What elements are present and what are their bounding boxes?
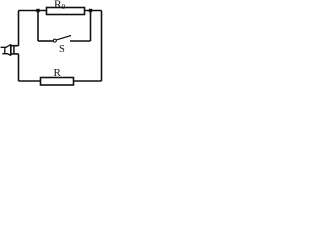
background xyxy=(0,0,109,90)
wire: switch right lead xyxy=(70,40,91,42)
speaker diaphragm line xyxy=(10,44,12,55)
wire: top-right segment from R0 box to corner xyxy=(85,10,102,12)
wire: speaker lower stub xyxy=(14,53,19,55)
svg-text:S: S xyxy=(59,44,65,55)
wire: switch left lead xyxy=(38,40,53,42)
wire: left edge upper vertical xyxy=(18,11,20,46)
switch S hinge circle xyxy=(53,39,56,42)
resistor R (box) xyxy=(41,78,74,86)
svg-text:R: R xyxy=(54,67,62,79)
wire: parallel-branch right vertical drop xyxy=(90,11,92,42)
node junction dot right xyxy=(89,9,92,12)
wire: left edge lower vertical xyxy=(18,54,20,81)
switch S blade (open) xyxy=(56,36,71,40)
resistor R0 (box) xyxy=(47,8,85,15)
speaker body (rectangle) xyxy=(11,46,14,54)
wire: right edge vertical xyxy=(101,11,103,82)
speaker horn mouth stem xyxy=(4,47,6,54)
node junction dot left xyxy=(36,9,39,12)
wire: speaker upper stub xyxy=(14,45,19,47)
speaker horn bottom edge xyxy=(2,54,11,56)
wire: bottom-left segment from corner to R box xyxy=(19,80,41,82)
wire: top-left segment from corner to R0 box xyxy=(19,10,47,12)
wire: parallel-branch left vertical drop xyxy=(37,11,39,42)
speaker horn top edge xyxy=(1,45,11,48)
wire: bottom-right segment from R box to corner xyxy=(74,80,102,82)
